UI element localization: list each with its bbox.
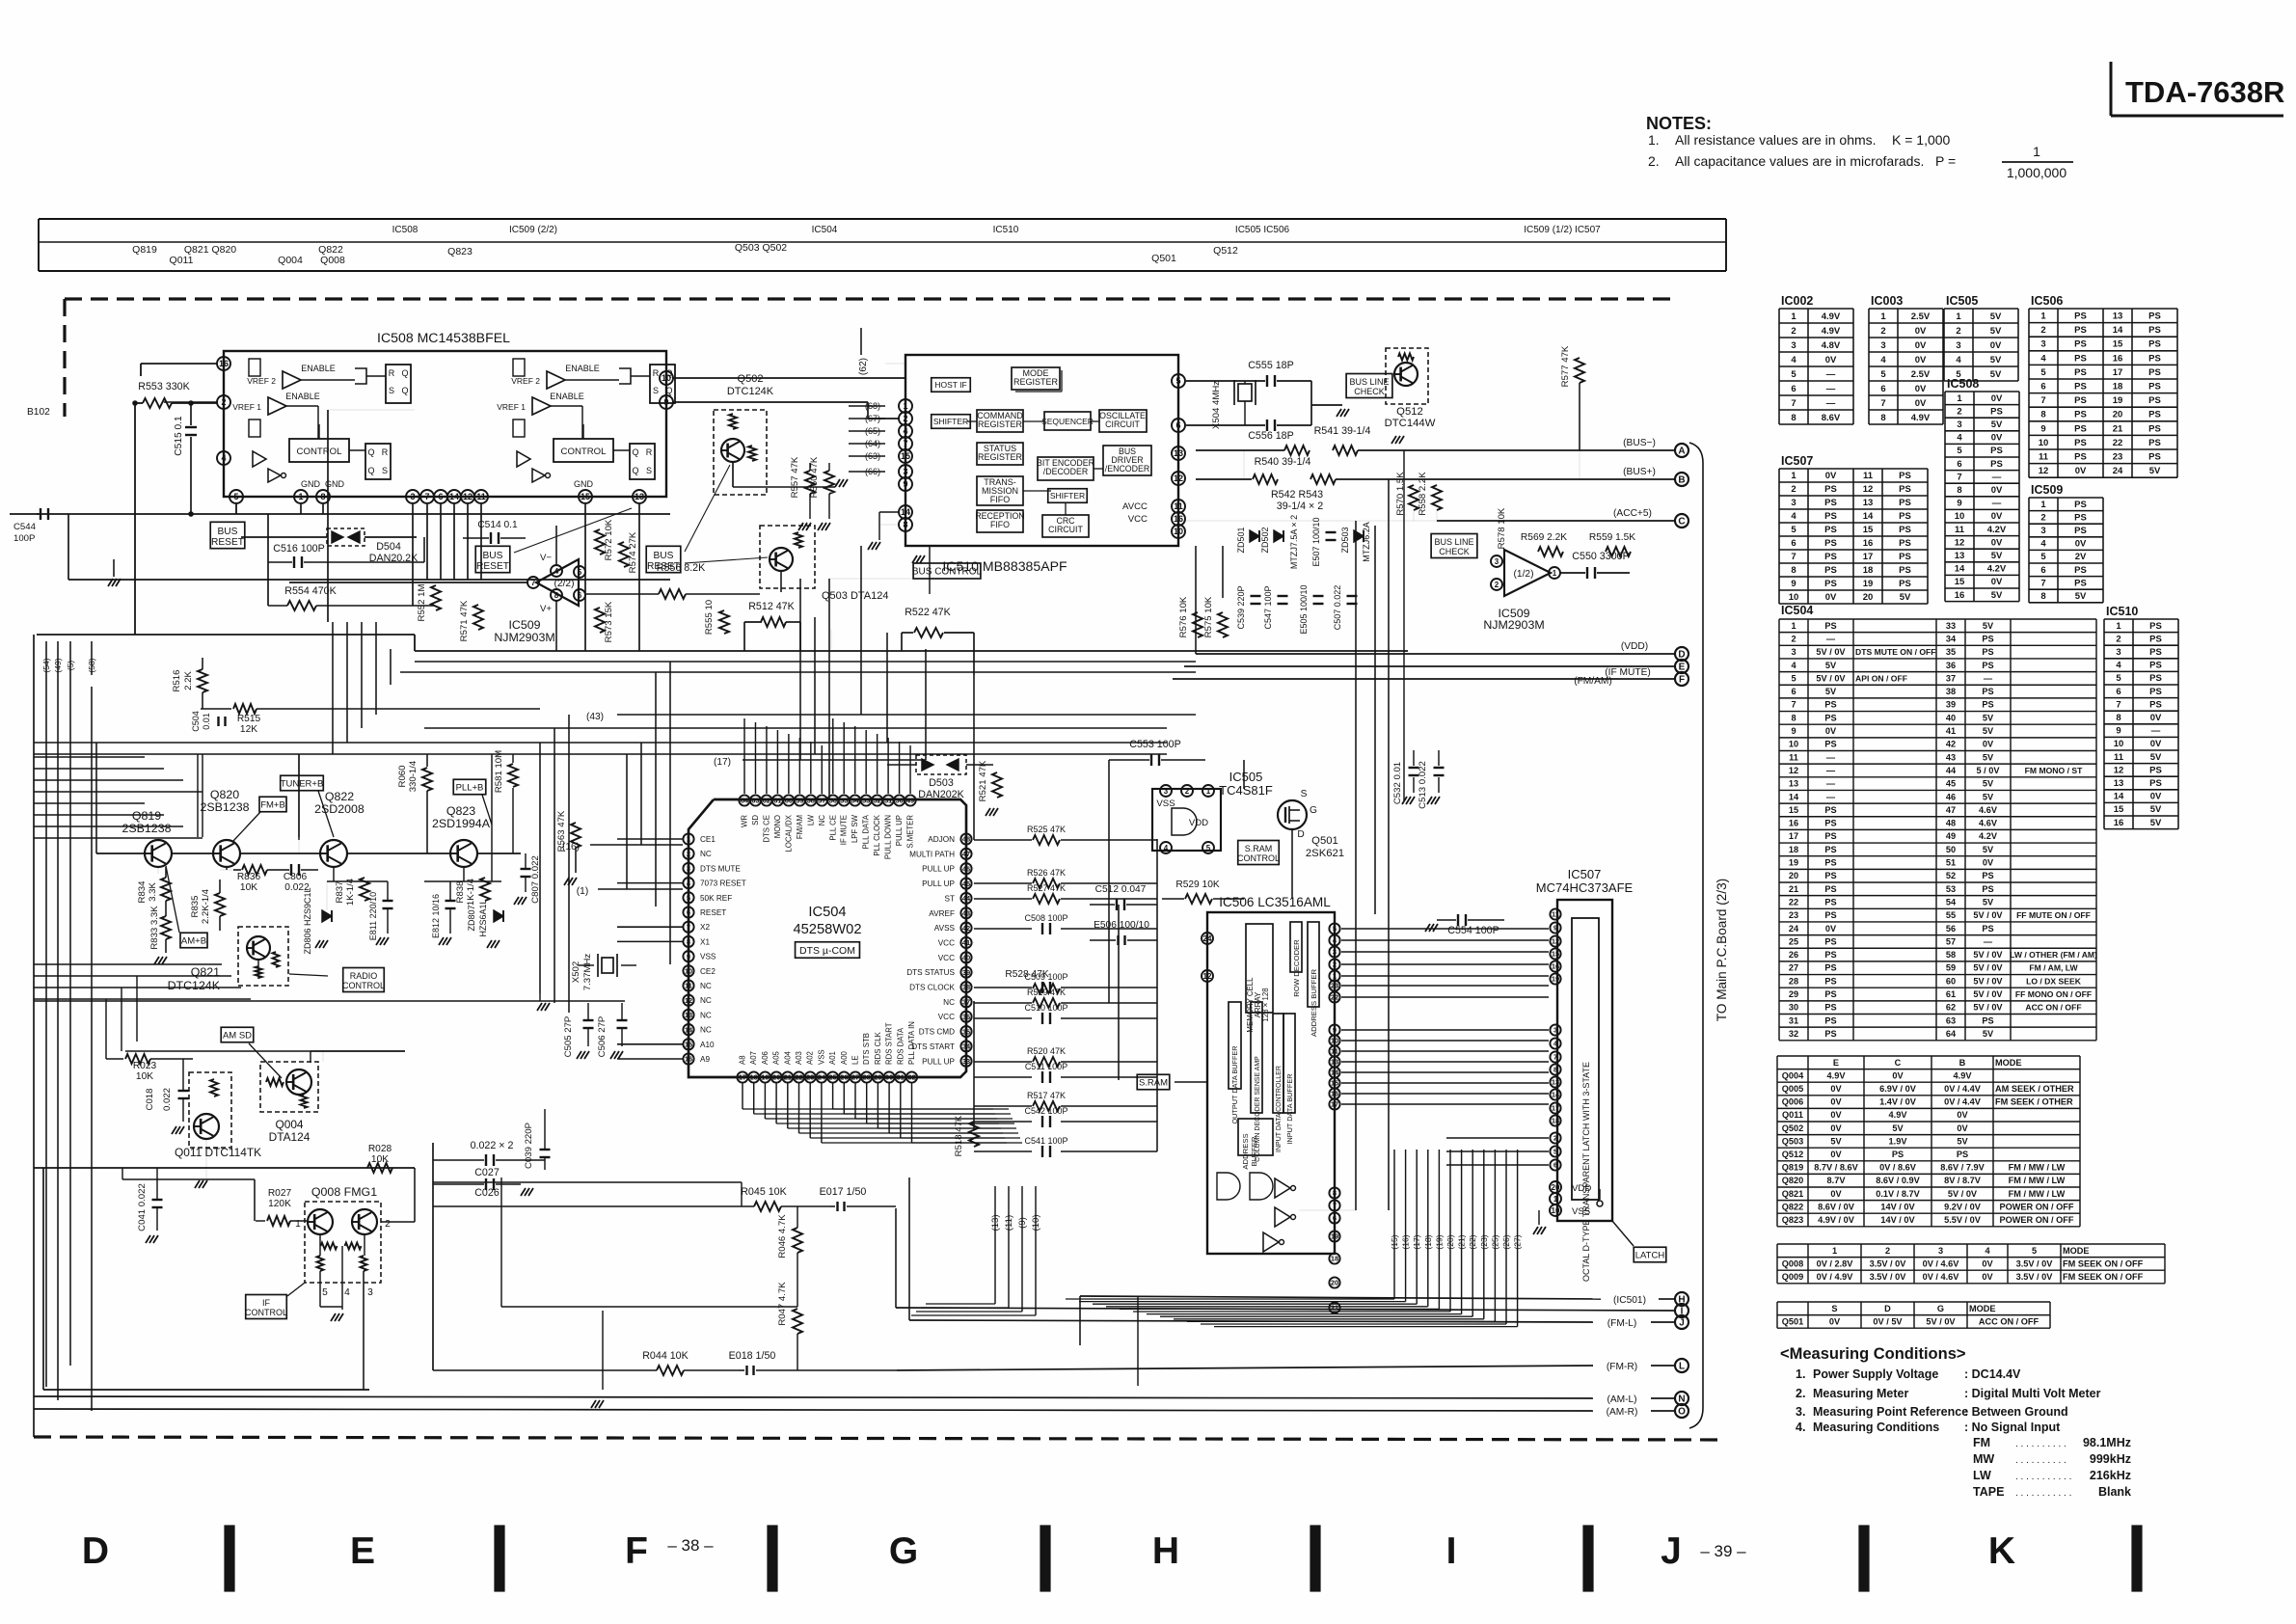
svg-text:8V / 8.7V: 8V / 8.7V: [1944, 1176, 1982, 1185]
svg-text:ADDRESS: ADDRESS: [1241, 1133, 1250, 1169]
svg-text:PLL DATA: PLL DATA: [862, 814, 871, 849]
svg-text:8: 8: [2040, 591, 2045, 602]
diode D503 DAN202K: [916, 755, 966, 774]
svg-text:AVCC: AVCC: [1122, 501, 1148, 512]
wire: [298, 754, 300, 837]
svg-text:2SB1238: 2SB1238: [122, 822, 172, 835]
wire: [197, 754, 199, 837]
svg-text:D: D: [1297, 829, 1304, 840]
svg-text:16: 16: [1955, 590, 1965, 601]
svg-text:0V: 0V: [1830, 1084, 1842, 1094]
svg-text:VSS: VSS: [1572, 1206, 1590, 1217]
wire: [1388, 479, 1390, 1210]
svg-text:0V: 0V: [1825, 471, 1837, 481]
svg-text:16: 16: [1863, 538, 1874, 549]
svg-text:48: 48: [1946, 819, 1956, 828]
svg-text:8: 8: [1553, 1066, 1557, 1074]
svg-text:LOCAL/DX: LOCAL/DX: [784, 814, 793, 852]
svg-text:26: 26: [1789, 950, 1798, 960]
svg-text:10: 10: [2114, 739, 2124, 749]
svg-text:14: 14: [1789, 792, 1799, 801]
svg-text:—: —: [2151, 726, 2161, 737]
svg-text:ACC ON / OFF: ACC ON / OFF: [1979, 1316, 2039, 1326]
svg-text:5: 5: [1957, 446, 1962, 456]
svg-text:DTS STATUS: DTS STATUS: [906, 968, 955, 977]
svg-text:5V: 5V: [1983, 752, 1994, 762]
svg-text:10: 10: [2039, 438, 2049, 448]
svg-text:15: 15: [901, 451, 910, 461]
svg-text:52: 52: [1946, 871, 1956, 880]
svg-text:H: H: [1152, 1530, 1179, 1572]
svg-text:PS: PS: [1824, 511, 1837, 522]
svg-text:ENABLE: ENABLE: [301, 364, 336, 373]
svg-text:10K: 10K: [240, 882, 257, 893]
svg-text:13: 13: [685, 1011, 692, 1019]
svg-text:0V: 0V: [1991, 577, 2003, 587]
svg-text:16: 16: [685, 1055, 692, 1064]
wire: [638, 504, 640, 651]
svg-text:5: 5: [687, 894, 690, 903]
svg-text:7: 7: [2040, 578, 2045, 588]
svg-text:ROW DECODER: ROW DECODER: [1292, 939, 1301, 997]
wire: [134, 403, 136, 635]
svg-text:4: 4: [1791, 661, 1796, 670]
svg-text:R047 4.7K: R047 4.7K: [777, 1282, 788, 1326]
svg-text:PS: PS: [1824, 950, 1836, 960]
svg-text:14: 14: [1863, 511, 1874, 522]
svg-text:PS: PS: [1899, 471, 1911, 481]
svg-text:2.5V: 2.5V: [1911, 369, 1931, 380]
svg-text:(1): (1): [577, 886, 588, 897]
svg-text:I: I: [1446, 1530, 1457, 1572]
svg-text:0V: 0V: [1825, 355, 1837, 365]
wire: [1244, 381, 1246, 384]
svg-text:3: 3: [1791, 340, 1796, 351]
svg-text:8: 8: [554, 591, 559, 600]
svg-text:(IC501): (IC501): [1613, 1295, 1646, 1306]
svg-text:C039 220P: C039 220P: [524, 1123, 534, 1169]
svg-text:MODE: MODE: [1995, 1058, 2022, 1068]
IC510 pin 10: [1172, 525, 1185, 538]
svg-text:4: 4: [1956, 355, 1961, 365]
svg-text:19: 19: [2113, 395, 2123, 406]
svg-text:5: 5: [2116, 673, 2121, 684]
wire vertical left bus: [33, 635, 35, 1437]
svg-text:(26): (26): [1501, 1234, 1511, 1249]
svg-text:2: 2: [385, 1219, 391, 1230]
svg-text:IC509: IC509: [2031, 483, 2063, 497]
svg-text:PS: PS: [2148, 311, 2161, 322]
svg-text:5V: 5V: [1991, 590, 2003, 601]
svg-text:28: 28: [863, 1073, 871, 1082]
svg-text:PS: PS: [1982, 634, 1993, 643]
svg-text:R522 47K: R522 47K: [905, 607, 951, 618]
wire: [333, 867, 335, 881]
svg-text:54: 54: [1946, 897, 1957, 907]
svg-text:PS: PS: [1824, 989, 1836, 999]
svg-text:31: 31: [1789, 1015, 1798, 1025]
svg-text:MC74HC373AFE: MC74HC373AFE: [1536, 880, 1634, 895]
svg-text:21: 21: [784, 1073, 792, 1082]
svg-text:FM / MW / LW: FM / MW / LW: [2009, 1189, 2066, 1199]
svg-text:9: 9: [1791, 579, 1796, 589]
svg-text:13: 13: [1863, 498, 1874, 508]
svg-text:3: 3: [1333, 948, 1337, 957]
svg-text:2: 2: [903, 414, 907, 423]
wire: [1156, 839, 1158, 1151]
svg-text:7: 7: [2116, 699, 2120, 710]
svg-text:5V: 5V: [1983, 845, 1994, 854]
svg-text:ENABLE: ENABLE: [550, 392, 584, 401]
svg-text:Q502: Q502: [738, 373, 764, 385]
svg-text:E507 100/10: E507 100/10: [1311, 517, 1321, 566]
svg-text:PS: PS: [1899, 565, 1911, 576]
svg-text:5V / 0V: 5V / 0V: [1926, 1316, 1956, 1326]
svg-text:12: 12: [685, 996, 692, 1005]
svg-text:0V: 0V: [1892, 1070, 1904, 1080]
svg-text:(1/2): (1/2): [1514, 569, 1534, 580]
IC510 pin 12: [1172, 472, 1185, 485]
svg-text:R028: R028: [368, 1144, 392, 1154]
svg-text:IC505 IC506: IC505 IC506: [1235, 225, 1290, 235]
svg-text:4: 4: [1957, 433, 1962, 444]
svg-text:6: 6: [1175, 420, 1180, 430]
IC510 pin 5: [1172, 374, 1185, 388]
svg-text:R: R: [653, 368, 660, 378]
svg-text:Q821: Q821: [1782, 1189, 1803, 1199]
svg-text:E: E: [350, 1530, 375, 1572]
svg-text:63: 63: [1946, 1015, 1956, 1025]
label PLL+B: [453, 779, 486, 795]
svg-text:3: 3: [1553, 1026, 1557, 1035]
svg-text:DTS CLOCK: DTS CLOCK: [909, 984, 955, 992]
svg-text:39: 39: [962, 968, 970, 977]
svg-text:13: 13: [1174, 448, 1183, 458]
svg-text:Q503 DTA124: Q503 DTA124: [822, 590, 889, 602]
svg-text:PS: PS: [1824, 845, 1836, 854]
wire: [91, 687, 93, 1411]
svg-text:Q823: Q823: [447, 246, 473, 257]
label BUS RESET: [210, 522, 245, 548]
svg-text:PS: PS: [1824, 498, 1837, 508]
svg-text:PS: PS: [1824, 484, 1837, 495]
svg-text:Measuring Conditions: Measuring Conditions: [1813, 1421, 1939, 1434]
svg-text:C542 100P: C542 100P: [1024, 1106, 1067, 1116]
svg-text:33: 33: [962, 1057, 970, 1066]
svg-text:IC508 MC14538BFEL: IC508 MC14538BFEL: [377, 330, 510, 345]
svg-text:5V: 5V: [2075, 591, 2087, 602]
svg-text:Q501: Q501: [1311, 835, 1338, 847]
svg-text:DTS STB: DTS STB: [862, 1033, 871, 1065]
wire: [799, 579, 801, 760]
svg-text:R516: R516: [172, 670, 182, 692]
svg-text:R553 330K: R553 330K: [138, 381, 190, 392]
block CRC CIRCUIT: [1042, 515, 1089, 537]
svg-text:C018: C018: [145, 1089, 155, 1111]
transistor voltage table Q501: [1777, 1301, 2050, 1303]
wire: [814, 617, 816, 754]
IC510 pin 8: [899, 518, 912, 531]
svg-text:46: 46: [1946, 792, 1956, 801]
wire C544 rail: [37, 513, 670, 515]
svg-text:R581 10M: R581 10M: [494, 750, 504, 793]
svg-text:. . . . . . . . . . .: . . . . . . . . . . .: [2015, 1488, 2071, 1499]
svg-text:8: 8: [1791, 413, 1796, 423]
svg-text:IC506 LC3516AML: IC506 LC3516AML: [1219, 895, 1331, 909]
svg-text:PS: PS: [1824, 565, 1837, 576]
svg-text:R835: R835: [190, 896, 201, 918]
svg-text:Q006: Q006: [1782, 1097, 1803, 1107]
svg-text:RESET: RESET: [700, 908, 726, 917]
svg-text:(5): (5): [66, 661, 75, 671]
svg-text:R552 1M: R552 1M: [417, 584, 427, 622]
svg-text:11: 11: [1789, 752, 1798, 762]
svg-text:E017 1/50: E017 1/50: [820, 1186, 867, 1198]
svg-text:0V: 0V: [1915, 355, 1927, 365]
wire: [1178, 520, 1437, 522]
svg-text:J: J: [1661, 1530, 1682, 1572]
IC508 pin 5: [230, 490, 243, 503]
wire: [973, 1001, 975, 1129]
svg-text:5V / 0V: 5V / 0V: [1973, 1003, 2003, 1013]
svg-text:0V: 0V: [2150, 713, 2162, 723]
svg-text:34: 34: [1946, 634, 1957, 643]
svg-text:40: 40: [962, 954, 970, 962]
bracket TO Main PC Board: [1689, 443, 1703, 1428]
svg-text:NJM2903M: NJM2903M: [1483, 618, 1544, 632]
svg-text:S: S: [646, 466, 652, 475]
svg-text:Q502: Q502: [1782, 1123, 1803, 1133]
svg-text:Q011: Q011: [1782, 1110, 1803, 1120]
svg-text:(58): (58): [87, 658, 96, 672]
svg-text:50K REF: 50K REF: [700, 894, 732, 903]
svg-text:4.2V: 4.2V: [1987, 525, 2007, 535]
svg-text:6: 6: [1791, 687, 1796, 696]
svg-text:2.2K-1/4: 2.2K-1/4: [201, 888, 211, 924]
svg-text:PS: PS: [1990, 406, 2003, 417]
wire: [332, 622, 334, 754]
svg-text:36: 36: [1946, 661, 1956, 670]
register STATUS REGISTER: [977, 443, 1023, 465]
svg-text:47: 47: [1946, 805, 1956, 815]
svg-text:PS: PS: [1824, 858, 1836, 868]
svg-text:8.6V / 7.9V: 8.6V / 7.9V: [1940, 1163, 1985, 1173]
svg-text:5V / 0V: 5V / 0V: [1973, 963, 2003, 973]
wire: [95, 743, 97, 853]
wire: [310, 1051, 311, 1063]
svg-text:C806: C806: [284, 872, 308, 882]
svg-text:15: 15: [2114, 804, 2124, 815]
svg-text:0V: 0V: [1830, 1189, 1842, 1199]
IC510 pin 6: [1172, 419, 1185, 432]
terminal N: [1675, 1392, 1688, 1405]
svg-text:—: —: [1826, 384, 1836, 394]
svg-text:A03: A03: [795, 1051, 803, 1065]
block ADDRESS BUFFER 2: [1238, 1119, 1273, 1155]
svg-text:3: 3: [1957, 420, 1961, 430]
svg-text:PULL UP: PULL UP: [922, 865, 955, 874]
svg-text:16: 16: [1789, 819, 1798, 828]
svg-text:4: 4: [2040, 353, 2046, 364]
svg-text:4.6V: 4.6V: [1979, 805, 1998, 815]
wire bus IC508 to IC510: [673, 377, 905, 379]
svg-text:PULL UP: PULL UP: [895, 815, 904, 846]
svg-text:1: 1: [1957, 393, 1962, 404]
svg-text:R557 47K: R557 47K: [790, 456, 800, 498]
wire: [217, 401, 224, 403]
svg-text:PS: PS: [2148, 410, 2161, 420]
svg-text:MTZJ6.2A: MTZJ6.2A: [1362, 522, 1371, 562]
svg-text:. . . . . . . . . .: . . . . . . . . . .: [2015, 1439, 2066, 1449]
svg-text:49: 49: [906, 797, 914, 805]
svg-text:PS: PS: [2074, 438, 2087, 448]
op-amp IC509 (1/2): [1504, 550, 1551, 596]
svg-text:10: 10: [1789, 592, 1799, 603]
svg-text:Power Supply Voltage: Power Supply Voltage: [1813, 1367, 1938, 1381]
svg-text:. . . . . . . . . . .: . . . . . . . . . . .: [2015, 1472, 2071, 1482]
svg-text:0V: 0V: [1983, 740, 1994, 749]
dashed border bottom: [34, 1437, 1722, 1440]
svg-text:PS: PS: [1824, 1015, 1836, 1025]
svg-text:29: 29: [874, 1073, 881, 1082]
wire: [433, 1181, 742, 1183]
wire bundle IC504 bottom: [742, 1083, 743, 1109]
ground: [537, 1003, 542, 1011]
ground: [1533, 1227, 1538, 1234]
block ADDRESS BUFFER: [1308, 922, 1319, 1007]
svg-text:(49): (49): [53, 658, 63, 672]
wire: [57, 675, 59, 1400]
svg-text:3: 3: [1791, 647, 1796, 657]
svg-text:J: J: [1679, 1318, 1685, 1329]
svg-text:11: 11: [2039, 452, 2049, 463]
svg-text:DTS CMD: DTS CMD: [919, 1028, 955, 1037]
wire: [1446, 1137, 1549, 1139]
svg-text:0.1V / 8.7V: 0.1V / 8.7V: [1876, 1189, 1920, 1199]
svg-text:S.METER: S.METER: [906, 815, 915, 849]
wire: [584, 504, 586, 651]
register COMMAND REGISTER: [977, 410, 1023, 432]
svg-text:MULTI PATH: MULTI PATH: [909, 850, 955, 858]
svg-text:14: 14: [2114, 792, 2124, 802]
svg-text:1: 1: [1791, 311, 1796, 322]
svg-text:VREF 2: VREF 2: [247, 376, 276, 386]
wire: [929, 546, 931, 594]
svg-text:21: 21: [2113, 423, 2123, 434]
IC506 right pins: [1329, 923, 1339, 934]
IC508 pin 8: [316, 490, 330, 503]
block INPUT DATA BUFFER: [1283, 1014, 1295, 1113]
svg-text:58: 58: [1946, 950, 1956, 960]
svg-text:NJM2903M: NJM2903M: [494, 631, 554, 644]
wire: [361, 622, 363, 728]
svg-text:5V: 5V: [2150, 804, 2162, 815]
wire: [1108, 760, 1110, 1003]
svg-text:45258W02: 45258W02: [793, 922, 861, 937]
svg-text:PS: PS: [2149, 661, 2162, 671]
svg-text:C544: C544: [14, 522, 37, 532]
label IF CONTROL: [246, 1295, 287, 1319]
svg-text:VDD: VDD: [1572, 1183, 1591, 1194]
svg-text:R554 470K: R554 470K: [284, 585, 337, 597]
svg-text:0V: 0V: [1830, 1110, 1842, 1120]
wire: [298, 754, 300, 840]
svg-text:PULL UP: PULL UP: [922, 1057, 955, 1066]
IC508 pin 4: [217, 451, 230, 465]
IC508 pin 16: [217, 357, 230, 370]
svg-text:30: 30: [1789, 1003, 1798, 1013]
svg-text:24: 24: [818, 1073, 826, 1082]
svg-text:6: 6: [1553, 1161, 1557, 1170]
svg-text:6: 6: [438, 492, 443, 501]
svg-text:GND: GND: [574, 479, 594, 489]
svg-text:0V: 0V: [1990, 340, 2002, 351]
svg-text:PS: PS: [2074, 325, 2087, 336]
svg-text:V−: V−: [540, 553, 552, 563]
svg-text:5: 5: [1791, 673, 1796, 683]
svg-text:61: 61: [1946, 989, 1956, 999]
block SHIFTER 2: [1048, 489, 1088, 503]
svg-text:53: 53: [862, 797, 870, 805]
svg-text:4: 4: [1985, 1246, 1990, 1256]
svg-text:Q008 FMG1: Q008 FMG1: [311, 1185, 377, 1199]
IC504 bottom pins 17-32: [737, 1071, 747, 1082]
svg-text:0V: 0V: [2075, 539, 2087, 550]
wire: [1403, 450, 1405, 800]
svg-text:7: 7: [1957, 472, 1961, 482]
svg-text:E812 10/16: E812 10/16: [431, 894, 441, 938]
svg-text:PS: PS: [2074, 512, 2087, 523]
svg-text:2: 2: [687, 850, 690, 858]
svg-text:Q819: Q819: [132, 809, 161, 823]
svg-text:10: 10: [685, 967, 692, 976]
svg-text:R521 47K: R521 47K: [978, 760, 988, 801]
svg-text:3: 3: [2116, 647, 2120, 658]
svg-text:R577 47K: R577 47K: [1560, 345, 1571, 387]
svg-text:ZD502: ZD502: [1260, 527, 1270, 553]
svg-text:PS: PS: [1824, 805, 1836, 815]
transistor Q011 DTC114TK: [189, 1072, 231, 1148]
svg-text:9: 9: [663, 397, 668, 407]
svg-text:5V: 5V: [1990, 311, 2002, 322]
svg-text:FM / MW / LW: FM / MW / LW: [2009, 1176, 2066, 1185]
svg-text:2.: 2.: [1796, 1387, 1805, 1400]
svg-text:Q512: Q512: [1396, 406, 1423, 418]
svg-text:IC504: IC504: [812, 225, 838, 235]
svg-text:IC506: IC506: [2031, 294, 2063, 308]
svg-text:ENABLE: ENABLE: [565, 364, 600, 373]
svg-text:MODE: MODE: [2063, 1246, 2090, 1256]
svg-text:ADJON: ADJON: [928, 835, 955, 844]
svg-text:16: 16: [1331, 1090, 1338, 1098]
svg-text:5V: 5V: [1830, 1136, 1842, 1146]
wire bundle (15)-(27): [1393, 1150, 1395, 1299]
svg-text:0V: 0V: [1829, 1316, 1841, 1326]
svg-text:16: 16: [2114, 818, 2124, 828]
svg-text:/ENCODER: /ENCODER: [1105, 464, 1149, 474]
svg-text:R569 2.2K: R569 2.2K: [1521, 532, 1567, 543]
wire: [440, 504, 442, 580]
svg-text:IC510: IC510: [993, 225, 1019, 235]
svg-text:35: 35: [1946, 647, 1956, 657]
wire: [298, 837, 300, 853]
svg-text:14: 14: [1552, 1091, 1560, 1099]
svg-text:REGISTER: REGISTER: [978, 420, 1023, 429]
svg-text:1: 1: [1333, 972, 1337, 981]
svg-text:11: 11: [2114, 752, 2124, 763]
svg-text:0V: 0V: [1830, 1097, 1842, 1107]
svg-text:LW: LW: [806, 814, 815, 826]
